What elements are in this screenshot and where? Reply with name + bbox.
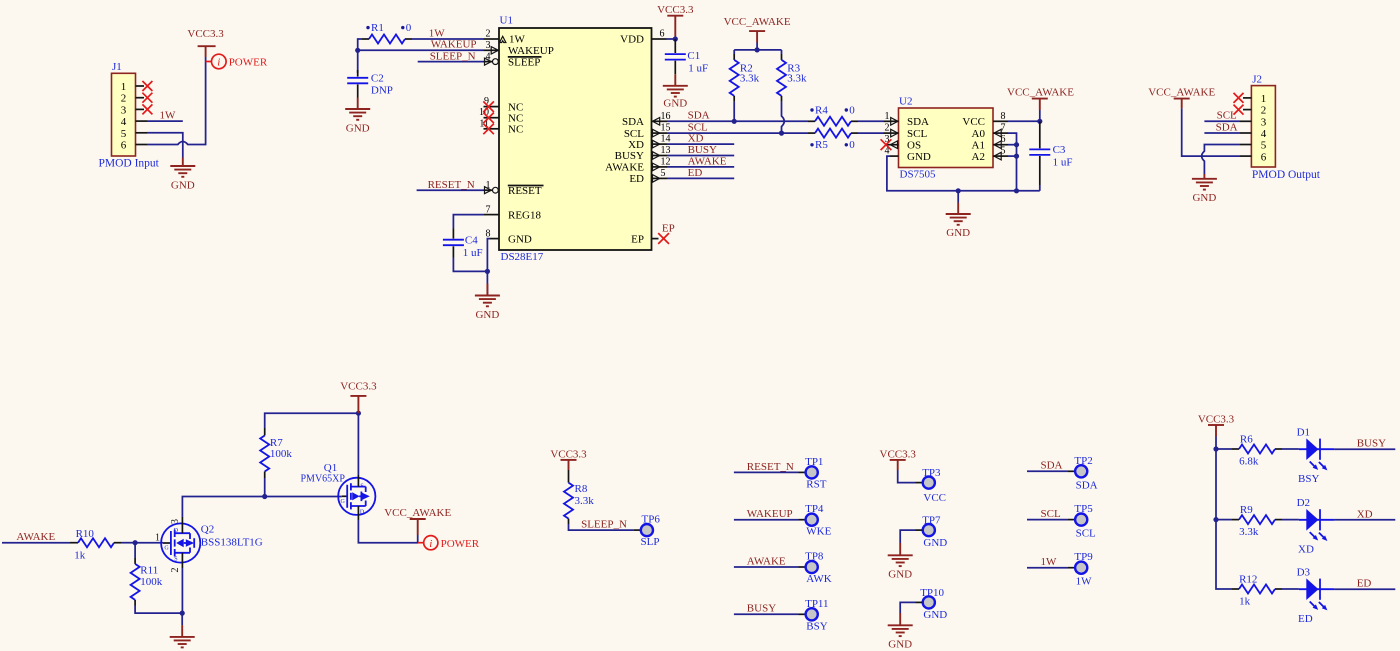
LED D3	[1299, 578, 1335, 610]
svg-text:POWER: POWER	[229, 57, 268, 69]
svg-text:GND: GND	[663, 97, 687, 109]
svg-text:R5: R5	[815, 139, 828, 151]
wire D2 to XD	[1334, 519, 1395, 521]
svg-text:0: 0	[849, 139, 855, 151]
svg-text:1 uF: 1 uF	[1053, 156, 1073, 168]
svg-text:SLEEP: SLEEP	[508, 56, 540, 68]
capacitor C4	[443, 240, 464, 246]
wire D3 to ED	[1334, 588, 1395, 590]
svg-text:S: S	[360, 483, 363, 489]
svg-text:WKE: WKE	[806, 526, 831, 538]
junction gate node	[133, 540, 138, 545]
LED D2	[1299, 509, 1335, 541]
ground symbol below C1	[663, 74, 688, 96]
svg-text:A2: A2	[972, 151, 985, 163]
J2 pin 6 stub	[1240, 155, 1251, 157]
no-connect X on OS	[881, 139, 892, 150]
svg-text:C2: C2	[371, 73, 384, 85]
wire A1 to vertical	[1008, 144, 1017, 146]
svg-text:AWK: AWK	[806, 573, 831, 585]
svg-text:R10: R10	[76, 528, 95, 540]
test point TP9	[1068, 567, 1075, 569]
svg-text:BUSY: BUSY	[1357, 438, 1386, 450]
svg-text:XD: XD	[1357, 508, 1373, 520]
wire C4 bottom to GND junction	[453, 258, 487, 272]
svg-text:VCC: VCC	[923, 492, 946, 504]
svg-text:RESET: RESET	[508, 185, 542, 197]
wire REG18 to C4	[453, 215, 484, 229]
junction VCC3.3 node	[356, 411, 361, 416]
svg-text:VCC_AWAKE: VCC_AWAKE	[724, 16, 791, 28]
svg-text:RESET_N: RESET_N	[747, 461, 794, 473]
svg-text:R9: R9	[1240, 504, 1253, 516]
svg-text:1: 1	[1261, 93, 1267, 105]
ground symbol below U1	[475, 284, 500, 307]
svg-text:GND: GND	[888, 569, 912, 581]
svg-text:AWAKE: AWAKE	[16, 531, 55, 543]
U2 pin 2 lead and arrow	[884, 132, 899, 134]
test point TP5	[1068, 519, 1075, 521]
resistor R10	[70, 542, 78, 544]
U1 pin names left side	[508, 34, 554, 246]
resistor R6	[1232, 448, 1239, 450]
svg-text:100k: 100k	[270, 448, 293, 460]
wire GND pin 8 down	[487, 239, 490, 295]
svg-text:RST: RST	[806, 478, 826, 490]
svg-text:BUSY: BUSY	[747, 603, 776, 615]
svg-text:SCL: SCL	[907, 128, 927, 140]
Q2 drain lead up	[181, 517, 183, 533]
U2 VCC pin 8 lead	[993, 120, 1008, 122]
J1 pin 6 stub	[136, 144, 148, 146]
U1 NC pin 9 lead	[484, 106, 500, 108]
svg-text:2: 2	[170, 568, 181, 573]
svg-text:3.3k: 3.3k	[575, 495, 595, 507]
svg-text:VCC3.3: VCC3.3	[187, 28, 224, 40]
svg-text:SCL: SCL	[1041, 508, 1061, 520]
wire AWAKE into R10	[2, 542, 70, 544]
svg-text:VCC_AWAKE: VCC_AWAKE	[1007, 87, 1074, 99]
wire SDA from U1 to R4	[667, 120, 808, 122]
svg-text:U2: U2	[899, 96, 912, 108]
wire SDA to TP2	[1027, 470, 1068, 472]
Q2 body diode	[186, 539, 194, 547]
ground symbol below U2	[957, 191, 959, 203]
svg-text:D1: D1	[1297, 427, 1310, 439]
svg-text:VCC3.3: VCC3.3	[657, 4, 694, 16]
svg-text:TP5: TP5	[1074, 503, 1093, 515]
resistor R9	[1232, 519, 1239, 521]
junction vertical to rail	[1014, 188, 1019, 193]
resistor R8	[568, 470, 570, 483]
svg-text:GND: GND	[346, 122, 370, 134]
svg-text:D3: D3	[1297, 567, 1311, 579]
svg-text:GND: GND	[946, 227, 970, 239]
svg-text:ED: ED	[629, 173, 644, 185]
test point TP2	[1068, 470, 1075, 472]
svg-text:U1: U1	[500, 15, 513, 27]
svg-text:TP6: TP6	[642, 514, 661, 526]
U1 pin 3 lead	[484, 49, 500, 51]
test point TP11	[799, 613, 806, 615]
U1 EP pin lead	[652, 238, 659, 240]
wire A2 to vertical	[1008, 155, 1017, 157]
connector J2 body	[1251, 86, 1275, 167]
wire AWAKE stub	[667, 166, 734, 168]
U2 A0 pin 7 lead and arrow	[993, 132, 1008, 134]
wire TP10 to ground	[916, 601, 923, 603]
U1 pin 13 BUSY lead and arrow	[652, 155, 668, 157]
J1 pin 3 stub	[136, 108, 145, 110]
svg-text:GND: GND	[171, 179, 195, 191]
U2 pin names	[907, 116, 931, 163]
svg-text:WAKEUP: WAKEUP	[508, 45, 554, 57]
svg-text:i: i	[217, 57, 220, 69]
resistor R3	[781, 50, 783, 54]
no-connect X on pin 9	[483, 101, 494, 112]
U1 pin 3 input arrow	[491, 47, 498, 54]
svg-text:SCL: SCL	[1076, 528, 1096, 540]
svg-text:PMOD Output: PMOD Output	[1252, 169, 1321, 181]
ground symbol below Q2	[181, 613, 183, 625]
svg-text:G: G	[341, 499, 346, 505]
SLEEP overline	[508, 56, 542, 58]
wire XD stub	[667, 143, 734, 145]
svg-text:i: i	[429, 538, 432, 550]
svg-text:Q1: Q1	[324, 462, 337, 474]
resistor R2	[733, 50, 735, 54]
junction GND rail stub	[956, 188, 961, 193]
test point TP6	[634, 529, 641, 531]
svg-text:D: D	[360, 510, 365, 516]
POWER flag at J1	[206, 61, 212, 63]
svg-text:8: 8	[486, 228, 491, 239]
svg-text:VCC3.3: VCC3.3	[1198, 413, 1235, 425]
wire gate node to Q2 gate	[135, 542, 163, 544]
power port VCC3.3 at TP3	[890, 460, 906, 470]
svg-text:GND: GND	[475, 309, 499, 321]
svg-text:TP2: TP2	[1074, 455, 1092, 467]
svg-text:J2: J2	[1252, 73, 1262, 85]
svg-text:3: 3	[170, 519, 181, 524]
junction VDD node	[673, 36, 678, 41]
svg-text:2: 2	[121, 93, 127, 105]
junction source/ground	[180, 611, 185, 616]
svg-text:SLEEP_N: SLEEP_N	[581, 519, 627, 531]
svg-text:1: 1	[121, 81, 127, 93]
svg-text:DS28E17: DS28E17	[501, 251, 544, 263]
svg-text:5: 5	[1261, 140, 1267, 152]
U1 pin 14 XD lead and arrow	[652, 143, 668, 145]
svg-text:C1: C1	[687, 50, 700, 62]
svg-text:R1: R1	[371, 22, 384, 34]
svg-text:SDA: SDA	[1041, 460, 1063, 472]
U1 pin 15 SCL lead and arrow	[652, 132, 668, 134]
wire R6 to D1	[1282, 448, 1299, 450]
svg-text:BUSY: BUSY	[615, 150, 644, 162]
Q1 body diode	[362, 493, 370, 501]
wire BUSY stub	[667, 155, 734, 157]
J1 pin 5 stub	[136, 132, 148, 134]
svg-text:TP7: TP7	[922, 515, 941, 527]
transistor Q1 PMV65XP	[338, 478, 375, 516]
svg-text:1 uF: 1 uF	[688, 63, 708, 75]
svg-text:7: 7	[486, 204, 491, 215]
wire AWAKE to TP8	[734, 566, 799, 568]
U1 pin 2 1W pin lead	[484, 38, 500, 40]
junction R2 on SDA	[732, 119, 737, 124]
svg-text:100k: 100k	[140, 576, 163, 588]
Q1 source lead top	[357, 475, 359, 487]
svg-text:R11: R11	[140, 564, 158, 576]
power port VCC_AWAKE above C3	[1032, 99, 1048, 110]
svg-text:1k: 1k	[1239, 596, 1251, 608]
svg-text:GND: GND	[923, 609, 947, 621]
capacitor C3	[1039, 121, 1041, 148]
U1 pin 5 ED lead and arrow	[652, 177, 668, 179]
resistor R12	[1232, 588, 1239, 590]
svg-text:TP4: TP4	[805, 503, 824, 515]
test point TP1	[799, 471, 806, 473]
wire VCC3.3 node to Q1 source	[357, 413, 359, 462]
resistor R1	[362, 38, 369, 40]
U2 pin 1 lead and arrow	[884, 120, 899, 122]
svg-text:2: 2	[1261, 105, 1267, 117]
svg-text:AWAKE: AWAKE	[688, 155, 727, 167]
svg-text:SDA: SDA	[907, 116, 929, 128]
svg-text:1: 1	[885, 111, 890, 122]
wire LED supply rail	[1216, 437, 1232, 590]
junction at VCC_AWAKE stub	[755, 47, 760, 52]
svg-text:3.3k: 3.3k	[740, 72, 760, 84]
wire rail to R6	[1216, 448, 1232, 450]
svg-text:J1: J1	[112, 61, 122, 73]
junction R3 on SCL	[779, 131, 784, 136]
IC U1 body	[499, 28, 652, 250]
svg-text:EP: EP	[631, 233, 644, 245]
svg-text:6: 6	[121, 140, 127, 152]
svg-text:4: 4	[121, 116, 127, 128]
U1 pin 4 lead	[484, 61, 493, 63]
ground symbol below J2	[1192, 174, 1217, 190]
svg-text:BSY: BSY	[806, 620, 827, 632]
svg-text:C3: C3	[1053, 144, 1066, 156]
svg-text:0: 0	[849, 104, 855, 116]
svg-text:XD: XD	[1298, 543, 1314, 555]
junction C3 top	[1037, 119, 1042, 124]
svg-text:S: S	[174, 556, 177, 562]
svg-text:0: 0	[406, 22, 412, 34]
svg-text:ED: ED	[1357, 578, 1372, 590]
svg-text:3.3k: 3.3k	[787, 72, 807, 84]
no-connect X on J1 pin 1	[142, 81, 152, 91]
J2 pin numbers	[1261, 93, 1267, 163]
U1 pin 1 RESET lead, arrow and bubble	[484, 189, 493, 191]
svg-text:1W: 1W	[1041, 556, 1058, 568]
J2 pin 1 stub	[1243, 97, 1251, 99]
svg-text:TP3: TP3	[922, 467, 941, 479]
svg-text:SDA: SDA	[1076, 479, 1098, 491]
svg-text:SDA: SDA	[688, 110, 710, 122]
J2 pin 5 stub	[1240, 144, 1251, 146]
U2 pin numbers	[885, 111, 890, 157]
RESET overline	[508, 185, 544, 187]
J2 pin 2 stub	[1243, 109, 1251, 111]
svg-text:TP8: TP8	[805, 551, 824, 563]
wire SDA to J2 pin 4	[1204, 132, 1240, 134]
svg-text:D2: D2	[1297, 497, 1310, 509]
no-connect X on J2 pin 2	[1234, 105, 1244, 115]
wire BUSY to TP11	[734, 613, 799, 615]
wire J2 pin 5 to ground (hop over pin 6 wire)	[1202, 145, 1240, 175]
wire D1 to BUSY	[1334, 448, 1395, 450]
wire J2 pin 6 to VCC_AWAKE	[1182, 108, 1240, 156]
svg-text:SLEEP_N: SLEEP_N	[430, 51, 476, 63]
power port VCC3.3 above R8	[561, 460, 577, 470]
U1 pin numbers	[479, 29, 491, 240]
transistor Q2 BSS138LT1G	[161, 523, 200, 562]
POWER flag at Q1	[418, 542, 424, 544]
wire R8 to TP6	[569, 524, 634, 530]
junction A2	[1014, 154, 1019, 159]
U1 pin 8 GND lead	[490, 238, 499, 240]
svg-text:14: 14	[661, 134, 671, 145]
svg-text:6: 6	[660, 29, 665, 40]
svg-text:15: 15	[661, 123, 671, 134]
no-connect X on J1 pin 2	[142, 93, 152, 103]
wire Q2 source to ground rail	[181, 568, 183, 613]
wire VDD to C1 node	[667, 38, 676, 40]
U2 pin 3 OS lead and arrow	[887, 144, 899, 146]
svg-text:ED: ED	[688, 167, 703, 179]
svg-text:TP1: TP1	[805, 456, 823, 468]
wire R12 to D3	[1282, 588, 1299, 590]
svg-text:REG18: REG18	[508, 209, 542, 221]
U1 pin 2 special glyph	[500, 36, 506, 42]
svg-text:C4: C4	[465, 235, 478, 247]
power port VCC3.3 above C1	[667, 16, 683, 37]
J1 pin 4 stub	[136, 120, 148, 122]
Q1 drain lead bottom	[357, 506, 359, 520]
svg-text:4: 4	[1261, 128, 1267, 140]
J2 pin 4 stub	[1240, 132, 1251, 134]
U1 pin 12 AWAKE lead and arrow	[652, 166, 668, 168]
U1 pin 16 SDA lead and arrow	[652, 120, 668, 122]
wire R4 to U2 pin1	[858, 120, 884, 122]
svg-text:16: 16	[661, 111, 671, 122]
wire Q2 drain to R7/Q1 gate	[182, 497, 341, 518]
wire Q1 drain to VCC_AWAKE flag	[358, 520, 418, 543]
svg-text:XD: XD	[628, 139, 644, 151]
wire 1W to TP9	[1027, 567, 1068, 569]
svg-text:A0: A0	[972, 128, 986, 140]
svg-text:AWAKE: AWAKE	[605, 162, 644, 174]
svg-text:ED: ED	[1298, 613, 1313, 625]
junction R7 on Q1 gate wire	[262, 494, 267, 499]
svg-text:1W: 1W	[509, 34, 526, 46]
wire 1W into U1 pin 2	[412, 38, 484, 40]
svg-text:1W: 1W	[160, 109, 177, 121]
no-connect X on pin 11	[483, 124, 494, 135]
wire U2 GND to bottom rail	[887, 156, 1040, 191]
wire R5 to U2 pin2	[858, 132, 884, 134]
R5 labels	[810, 143, 813, 146]
svg-text:6.8k: 6.8k	[1239, 456, 1259, 468]
no-connect X on pin 10	[483, 113, 494, 124]
J1 pin 2 stub	[136, 97, 145, 99]
svg-text:DS7505: DS7505	[900, 169, 937, 181]
ground symbol below J1	[170, 158, 195, 177]
wire WAKEUP	[358, 49, 484, 51]
J1 pin numbers	[121, 81, 127, 152]
svg-text:GND: GND	[888, 639, 912, 651]
svg-text:VCC_AWAKE: VCC_AWAKE	[1148, 86, 1215, 98]
svg-text:VDD: VDD	[620, 34, 644, 46]
wire RESET_N to TP1	[734, 471, 799, 473]
svg-text:WAKEUP: WAKEUP	[747, 508, 793, 520]
wire rail to R9	[1216, 519, 1232, 521]
wire J1 pin 6 to VCC3.3 (hop over ground wire)	[147, 57, 206, 145]
svg-text:VCC: VCC	[962, 116, 985, 128]
wire ED stub	[667, 177, 734, 179]
wire WAKEUP to TP4	[734, 519, 799, 521]
svg-text:R4: R4	[815, 104, 828, 116]
power port VCC3.3 above LEDs	[1208, 425, 1224, 437]
svg-text:6: 6	[1261, 151, 1267, 163]
resistor R7	[264, 478, 266, 497]
no-connect X on EP	[658, 233, 669, 244]
U1 NC pin 10 lead	[484, 117, 500, 119]
connector J1 body	[112, 73, 136, 156]
power port VCC3.3 at J1	[198, 46, 216, 57]
junction at WAKEUP tap	[355, 48, 360, 53]
svg-text:TP9: TP9	[1074, 551, 1093, 563]
resistor R5	[808, 132, 815, 134]
svg-text:D: D	[174, 528, 179, 534]
wire R3 bottom to SCL (hop over SDA)	[782, 102, 785, 133]
svg-text:3: 3	[121, 104, 127, 116]
svg-text:EP: EP	[662, 223, 675, 235]
wire SLEEP_N	[418, 61, 484, 63]
svg-text:WAKEUP: WAKEUP	[431, 39, 477, 51]
wire R11 bottom to source rail	[135, 606, 182, 614]
svg-text:1W: 1W	[429, 27, 446, 39]
svg-text:SDA: SDA	[622, 116, 644, 128]
resistor R4	[808, 120, 815, 122]
svg-text:Q2: Q2	[201, 524, 214, 536]
svg-text:XD: XD	[688, 133, 704, 145]
svg-text:12: 12	[661, 156, 671, 167]
wire VCC_AWAKE stub to node	[1039, 110, 1041, 121]
junction LED row 1	[1213, 446, 1218, 451]
svg-text:SCL: SCL	[1217, 110, 1237, 122]
svg-text:5: 5	[661, 168, 666, 179]
wire R9 to D2	[1282, 519, 1299, 521]
svg-text:VCC3.3: VCC3.3	[880, 448, 917, 460]
Q1 substrate arrow	[352, 492, 359, 500]
svg-text:DNP: DNP	[371, 85, 393, 97]
Q2 source lead down	[181, 553, 183, 568]
test point TP7	[923, 524, 935, 536]
ground symbol below TP7	[888, 543, 913, 566]
wire TP7 to ground	[916, 529, 923, 531]
wire from C2 node to R1	[358, 39, 362, 73]
capacitor C2	[357, 70, 359, 77]
svg-text:G: G	[164, 546, 169, 552]
resistor R11	[134, 543, 136, 558]
junction C4/GND	[485, 269, 490, 274]
svg-text:GND: GND	[508, 233, 532, 245]
